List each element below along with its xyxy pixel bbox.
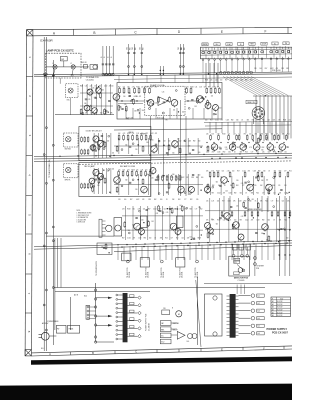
svg-text:100: 100 (286, 238, 288, 240)
svg-text:C77: C77 (171, 238, 174, 240)
svg-text:2.2K: 2.2K (141, 169, 144, 171)
svg-text:C77: C77 (251, 152, 254, 154)
svg-text:100: 100 (188, 187, 190, 189)
svg-text:4.7K: 4.7K (186, 87, 189, 89)
svg-text:100: 100 (107, 140, 109, 142)
svg-text:C45: C45 (151, 178, 154, 180)
svg-text:560: 560 (240, 193, 242, 195)
svg-text:2.2K: 2.2K (138, 209, 141, 211)
svg-text:R92: R92 (258, 170, 261, 172)
svg-text:100: 100 (259, 68, 261, 70)
svg-text:0.022: 0.022 (153, 209, 157, 211)
svg-text:BLK 25V: BLK 25V (277, 310, 282, 312)
svg-text:R60: R60 (135, 47, 137, 50)
svg-text:100: 100 (141, 133, 143, 135)
svg-text:R57: R57 (210, 120, 213, 122)
svg-text:R57: R57 (155, 87, 158, 89)
svg-text:R57: R57 (212, 193, 215, 195)
svg-text:B-6: B-6 (258, 333, 260, 335)
svg-text:10K: 10K (268, 152, 270, 154)
svg-text:47K: 47K (186, 177, 188, 179)
svg-text:100: 100 (143, 209, 145, 211)
svg-text:C31: C31 (132, 133, 135, 135)
svg-text:1K: 1K (234, 152, 236, 154)
svg-text:R60: R60 (184, 47, 186, 50)
svg-text:10K: 10K (279, 193, 281, 195)
svg-text:100: 100 (198, 174, 200, 176)
svg-text:33K: 33K (280, 147, 282, 149)
svg-text:C77: C77 (284, 170, 287, 172)
svg-text:0.022: 0.022 (228, 201, 232, 203)
svg-text:2.2K: 2.2K (166, 177, 169, 179)
svg-text:560: 560 (174, 209, 176, 211)
svg-text:33K: 33K (247, 120, 249, 122)
svg-text:560: 560 (218, 185, 220, 187)
svg-text:4.7K: 4.7K (192, 238, 195, 240)
svg-text:C118: C118 (256, 220, 259, 222)
svg-text:C45: C45 (241, 145, 244, 147)
svg-text:F: F (265, 29, 267, 33)
svg-text:C31: C31 (223, 220, 226, 222)
svg-text:33K: 33K (251, 193, 253, 195)
svg-text:100: 100 (171, 177, 173, 179)
svg-text:R12: R12 (176, 238, 179, 240)
svg-text:1K: 1K (274, 147, 276, 149)
svg-text:C31: C31 (136, 169, 139, 171)
svg-text:C45: C45 (225, 149, 228, 151)
svg-text:10K: 10K (206, 220, 208, 222)
svg-text:4.7K: 4.7K (211, 170, 214, 172)
svg-text:CN3: CN3 (132, 47, 134, 50)
svg-text:0.022: 0.022 (104, 86, 108, 88)
svg-text:M: M (178, 314, 180, 316)
svg-text:C118: C118 (191, 177, 194, 179)
svg-text:C31: C31 (161, 177, 164, 179)
svg-text:R108: R108 (222, 133, 225, 135)
svg-text:C45: C45 (141, 220, 144, 222)
svg-text:CX-5021A: CX-5021A (86, 78, 95, 81)
svg-text:C118: C118 (217, 152, 220, 154)
svg-text:R92: R92 (231, 120, 234, 122)
svg-text:P: P (272, 298, 273, 300)
svg-text:10K: 10K (273, 120, 275, 122)
svg-text:GX-F60R: GX-F60R (40, 38, 54, 42)
svg-text:100: 100 (266, 179, 268, 181)
svg-text:R24: R24 (236, 185, 239, 187)
svg-text:C118: C118 (148, 199, 151, 201)
svg-text:100: 100 (204, 87, 206, 89)
svg-text:TO METER: TO METER (256, 266, 265, 268)
svg-text:B: B (92, 351, 94, 355)
svg-text:560: 560 (125, 179, 127, 181)
svg-text:CN3: CN3 (126, 47, 128, 50)
svg-text:C45: C45 (101, 179, 104, 181)
svg-text:C45: C45 (162, 92, 165, 94)
svg-text:C45: C45 (128, 93, 131, 95)
svg-text:560: 560 (236, 120, 238, 122)
svg-text:C118: C118 (138, 238, 141, 240)
svg-text:R92: R92 (262, 220, 265, 222)
svg-text:C5D: C5D (163, 308, 166, 310)
svg-text:4.7K: 4.7K (284, 193, 287, 195)
svg-text:47K: 47K (248, 170, 250, 172)
svg-text:BLK 25V: BLK 25V (277, 301, 282, 303)
svg-text:BLK 25V: BLK 25V (277, 304, 282, 306)
svg-text:SOL: SOL (161, 336, 164, 338)
svg-text:R12: R12 (200, 209, 203, 211)
svg-text:C31: C31 (210, 80, 213, 82)
svg-text:R108: R108 (136, 87, 139, 89)
svg-text:47K: 47K (221, 120, 223, 122)
svg-text:560: 560 (261, 150, 263, 152)
svg-text:R12: R12 (118, 87, 121, 89)
svg-text:SOL2: SOL2 (161, 342, 165, 344)
svg-text:100: 100 (94, 86, 96, 88)
svg-text:C31: C31 (228, 133, 231, 135)
svg-text:10K: 10K (118, 133, 120, 135)
svg-text:0.022: 0.022 (178, 141, 182, 143)
svg-text:C118: C118 (260, 133, 263, 135)
svg-text:1K: 1K (276, 133, 278, 135)
svg-text:100: 100 (206, 193, 208, 195)
svg-text:R60: R60 (143, 47, 145, 50)
svg-text:TP1: TP1 (126, 119, 129, 121)
svg-text:0.022: 0.022 (181, 177, 185, 179)
svg-text:WIRING SIDE VIEW: WIRING SIDE VIEW (248, 209, 262, 211)
svg-text:PCB: PCB (256, 268, 259, 270)
svg-text:0.022: 0.022 (270, 68, 274, 70)
svg-text:10K: 10K (127, 87, 129, 89)
svg-text:C45: C45 (155, 103, 158, 105)
svg-text:47K: 47K (183, 141, 185, 143)
svg-text:560: 560 (102, 89, 104, 91)
svg-text:2.2K: 2.2K (228, 220, 231, 222)
svg-text:B-2: B-2 (258, 303, 260, 305)
svg-text:0.022: 0.022 (230, 80, 234, 82)
svg-text:47K: 47K (155, 133, 157, 135)
svg-text:R108: R108 (216, 170, 219, 172)
svg-text:PCB CX-500: PCB CX-500 (272, 70, 281, 72)
svg-text:R57: R57 (148, 209, 151, 211)
svg-text:C77: C77 (262, 193, 265, 195)
svg-text:R57: R57 (130, 199, 133, 201)
svg-text:0.022: 0.022 (245, 220, 249, 222)
svg-text:100: 100 (111, 85, 113, 87)
svg-text:R92: R92 (196, 177, 199, 179)
svg-text:REMOTE: REMOTE (247, 102, 255, 104)
svg-text:560: 560 (216, 224, 218, 226)
svg-text:0.022: 0.022 (80, 113, 84, 115)
svg-text:C45: C45 (254, 185, 257, 187)
svg-text:B: B (172, 308, 173, 310)
svg-text:47K: 47K (233, 201, 235, 203)
svg-text:47K: 47K (133, 238, 135, 240)
svg-text:R108: R108 (198, 238, 201, 240)
svg-text:POWER SUPPLY PCB: POWER SUPPLY PCB (146, 313, 148, 331)
svg-text:SOL: SOL (187, 341, 190, 343)
svg-text:CN3: CN3 (178, 47, 180, 50)
svg-text:E: E (221, 347, 223, 351)
svg-text:100: 100 (112, 153, 114, 155)
svg-text:B-3: B-3 (258, 311, 260, 313)
svg-text:BLK 25V: BLK 25V (277, 312, 282, 314)
svg-text:R108: R108 (217, 220, 220, 222)
svg-text:REEL: REEL (161, 329, 165, 331)
svg-text:0.022: 0.022 (242, 170, 246, 172)
svg-text:C: C (135, 350, 137, 354)
svg-text:C118: C118 (253, 170, 256, 172)
svg-text:33K: 33K (184, 209, 186, 211)
svg-text:100: 100 (266, 138, 268, 140)
svg-text:C31: C31 (85, 86, 88, 88)
svg-text:C31: C31 (195, 87, 198, 89)
svg-text:560: 560 (261, 233, 263, 235)
svg-text:560: 560 (201, 177, 203, 179)
svg-text:2.2K: 2.2K (254, 68, 257, 70)
svg-text:B52: B52 (234, 259, 237, 261)
svg-text:100: 100 (128, 230, 130, 232)
svg-text:MUTING: MUTING (65, 149, 72, 151)
svg-text:NOTE:: NOTE: (77, 210, 82, 212)
svg-text:R57: R57 (99, 86, 102, 88)
svg-text:R92: R92 (245, 80, 248, 82)
svg-text:2.2K: 2.2K (136, 133, 139, 135)
svg-text:0.022: 0.022 (243, 147, 247, 149)
svg-text:10K: 10K (260, 185, 262, 187)
svg-text:C45: C45 (123, 87, 126, 89)
svg-text:C45: C45 (201, 98, 204, 100)
svg-text:C118: C118 (188, 141, 191, 143)
svg-text:1K: 1K (154, 238, 156, 240)
svg-text:C45: C45 (166, 212, 169, 214)
svg-text:560: 560 (263, 170, 265, 172)
svg-text:R24: R24 (256, 193, 259, 195)
svg-text:4.7K: 4.7K (132, 87, 135, 89)
svg-text:47K: 47K (212, 152, 214, 154)
svg-text:1K: 1K (105, 113, 107, 115)
svg-text:C45: C45 (92, 88, 95, 90)
svg-text:C45: C45 (241, 183, 244, 185)
svg-text:33K: 33K (172, 199, 174, 201)
svg-text:R57: R57 (225, 80, 228, 82)
svg-text:R57: R57 (208, 87, 211, 89)
svg-text:C45: C45 (151, 140, 154, 142)
svg-text:R108: R108 (205, 80, 208, 82)
svg-text:R92: R92 (262, 147, 265, 149)
svg-text:560: 560 (268, 147, 270, 149)
svg-text:BLK 25V: BLK 25V (277, 315, 282, 317)
svg-text:SW: SW (61, 59, 64, 61)
svg-text:R108: R108 (127, 133, 130, 135)
svg-text:R12: R12 (248, 185, 251, 187)
svg-text:R57: R57 (146, 133, 149, 135)
svg-text:47K: 47K (158, 209, 160, 211)
svg-text:CN3: CN3 (181, 47, 183, 50)
svg-text:L2: L2 (70, 63, 72, 65)
svg-text:C77: C77 (195, 209, 198, 211)
svg-text:560: 560 (172, 153, 174, 155)
svg-text:C118: C118 (228, 193, 231, 195)
svg-text:B-4: B-4 (258, 318, 260, 320)
svg-text:100: 100 (219, 108, 221, 110)
svg-text:33K: 33K (230, 185, 232, 187)
svg-text:47K: 47K (223, 193, 225, 195)
svg-text:560: 560 (134, 110, 136, 112)
svg-text:C31: C31 (158, 141, 161, 143)
svg-text:C45: C45 (273, 193, 276, 195)
svg-text:10K: 10K (123, 169, 125, 171)
svg-text:1K: 1K (241, 120, 243, 122)
svg-text:100: 100 (112, 169, 114, 171)
svg-text:LAMP PCB CX-522TC: LAMP PCB CX-522TC (46, 49, 74, 53)
svg-text:4.7K: 4.7K (273, 152, 276, 154)
svg-text:560: 560 (100, 113, 102, 115)
svg-text:R24: R24 (265, 201, 268, 203)
svg-text:2.2K: 2.2K (233, 133, 236, 135)
svg-text:REC EQ AMP: REC EQ AMP (84, 165, 95, 168)
svg-text:0.022: 0.022 (150, 133, 154, 135)
svg-text:100: 100 (123, 96, 125, 98)
svg-text:C118: C118 (164, 209, 167, 211)
svg-text:VOLT: VOLT (280, 298, 283, 300)
svg-text:R24: R24 (279, 170, 282, 172)
svg-text:1K: 1K (273, 220, 275, 222)
svg-text:C31: C31 (222, 170, 225, 172)
svg-text:R24: R24 (287, 133, 290, 135)
svg-text:560: 560 (160, 199, 162, 201)
svg-text:1K: 1K (166, 199, 168, 201)
svg-text:C45: C45 (101, 141, 104, 143)
svg-text:EJ: EJ (274, 43, 276, 45)
svg-text:100: 100 (145, 169, 147, 171)
svg-text:0.022: 0.022 (136, 199, 140, 201)
svg-text:10K: 10K (211, 133, 213, 135)
svg-text:B: B (93, 31, 95, 35)
svg-text:R12: R12 (256, 152, 259, 154)
svg-text:R92: R92 (144, 238, 147, 240)
svg-text:R92: R92 (286, 68, 289, 70)
svg-text:0.022: 0.022 (206, 152, 210, 154)
svg-text:5. LEVEL 0 dB: 5. LEVEL 0 dB (77, 222, 86, 224)
svg-text:C118: C118 (206, 185, 209, 187)
svg-text:2.2K: 2.2K (284, 185, 287, 187)
svg-text:R24: R24 (165, 238, 168, 240)
svg-text:2.2K: 2.2K (227, 170, 230, 172)
svg-text:C118: C118 (238, 201, 241, 203)
svg-text:10K: 10K (187, 238, 189, 240)
svg-text:100: 100 (205, 120, 207, 122)
svg-text:C77: C77 (242, 185, 245, 187)
svg-text:C45: C45 (194, 106, 197, 108)
svg-text:C45: C45 (118, 169, 121, 171)
svg-text:R24: R24 (252, 120, 255, 122)
svg-text:1K: 1K (255, 201, 257, 203)
svg-text:0.022: 0.022 (217, 193, 221, 195)
svg-text:100: 100 (182, 112, 184, 114)
svg-text:PCB CX-5007: PCB CX-5007 (272, 331, 288, 334)
svg-text:C31: C31 (206, 201, 209, 203)
svg-text:B-5: B-5 (258, 326, 260, 328)
svg-text:560: 560 (216, 182, 218, 184)
svg-text:4.7K: 4.7K (206, 147, 209, 149)
svg-text:33K: 33K (282, 133, 284, 135)
svg-text:2.2K: 2.2K (163, 141, 166, 143)
svg-text:47K: 47K (255, 133, 257, 135)
svg-text:4.7K: 4.7K (127, 169, 130, 171)
svg-text:C77: C77 (271, 201, 274, 203)
svg-text:C31: C31 (141, 87, 144, 89)
svg-text:47K: 47K (85, 113, 87, 115)
svg-text:33K: 33K (240, 152, 242, 154)
svg-text:4. K=1000 OHM: 4. K=1000 OHM (77, 219, 86, 221)
svg-text:R92: R92 (169, 209, 172, 211)
svg-text:R57: R57 (176, 177, 179, 179)
svg-text:MPX FIL: MPX FIL (65, 179, 71, 181)
svg-text:C45: C45 (241, 216, 244, 218)
svg-text:R92: R92 (223, 152, 226, 154)
svg-text:R12: R12 (190, 199, 193, 201)
svg-text:R601 1K: R601 1K (81, 62, 87, 64)
svg-text:R108: R108 (190, 87, 193, 89)
svg-text:C45: C45 (206, 133, 209, 135)
svg-text:R57: R57 (237, 170, 240, 172)
svg-text:C45: C45 (225, 191, 228, 193)
svg-text:2.2K: 2.2K (215, 80, 218, 82)
svg-text:10K: 10K (287, 201, 289, 203)
svg-text:D: D (178, 349, 180, 353)
svg-text:C77: C77 (257, 120, 260, 122)
svg-text:100: 100 (124, 199, 126, 201)
svg-text:R24: R24 (287, 147, 290, 149)
svg-text:1K: 1K (224, 185, 226, 187)
svg-text:100: 100 (142, 110, 144, 112)
svg-text:560: 560 (172, 174, 174, 176)
svg-text:TP2: TP2 (165, 120, 168, 122)
svg-text:R108: R108 (156, 177, 159, 179)
svg-text:560: 560 (261, 180, 263, 182)
svg-text:C45: C45 (236, 180, 239, 182)
svg-text:100: 100 (136, 96, 138, 98)
svg-text:R92: R92 (234, 193, 237, 195)
svg-text:2.2K: 2.2K (90, 86, 93, 88)
svg-text:47K: 47K (109, 86, 111, 88)
svg-text:B-5-1: B-5-1 (41, 348, 45, 350)
svg-text:R108: R108 (283, 120, 286, 122)
svg-text:DOLBY NR CIRCUIT: DOLBY NR CIRCUIT (86, 131, 102, 133)
svg-text:R12: R12 (276, 201, 279, 203)
svg-text:560: 560 (198, 141, 200, 143)
svg-text:R57: R57 (122, 238, 125, 240)
svg-text:100: 100 (234, 220, 236, 222)
svg-text:C31: C31 (218, 147, 221, 149)
svg-text:R108: R108 (127, 209, 130, 211)
svg-text:R57: R57 (265, 68, 268, 70)
svg-text:C118: C118 (240, 80, 243, 82)
svg-text:47K: 47K (217, 87, 219, 89)
svg-text:R24: R24 (178, 199, 181, 201)
svg-text:C45: C45 (156, 213, 159, 215)
svg-text:C45: C45 (135, 149, 138, 151)
svg-text:R108: R108 (132, 169, 135, 171)
svg-text:10K: 10K (206, 170, 208, 172)
svg-text:100: 100 (220, 80, 222, 82)
svg-text:0.022: 0.022 (212, 87, 216, 89)
svg-text:C45: C45 (135, 189, 138, 191)
svg-text:4.7K: 4.7K (266, 185, 269, 187)
svg-text:C118: C118 (226, 120, 229, 122)
svg-text:R92: R92 (154, 199, 157, 201)
svg-text:B53: B53 (234, 262, 237, 264)
